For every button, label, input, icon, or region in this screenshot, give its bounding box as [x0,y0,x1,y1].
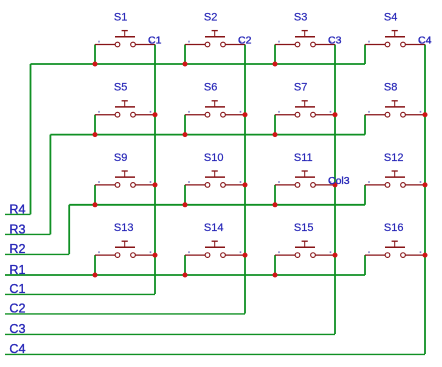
svg-text:S12: S12 [384,152,404,164]
svg-text:S7: S7 [294,82,307,94]
svg-text:C2: C2 [238,35,252,47]
svg-text:S5: S5 [114,82,127,94]
svg-text:S10: S10 [204,152,224,164]
svg-text:S9: S9 [114,152,127,164]
svg-text:C1: C1 [148,35,162,47]
svg-text:S1: S1 [114,12,127,24]
svg-text:Col3: Col3 [328,175,350,187]
svg-text:S15: S15 [294,222,314,234]
svg-text:C2: C2 [9,302,25,316]
svg-text:R2: R2 [9,242,25,256]
svg-text:S2: S2 [204,12,217,24]
svg-text:S11: S11 [294,152,313,164]
svg-text:S6: S6 [204,82,217,94]
svg-text:C4: C4 [9,342,25,356]
svg-text:R4: R4 [9,202,25,216]
svg-text:C1: C1 [9,282,25,296]
svg-text:S16: S16 [384,222,404,234]
svg-text:C4: C4 [418,35,432,47]
svg-text:C3: C3 [9,322,25,336]
svg-text:S3: S3 [294,12,307,24]
svg-text:S8: S8 [384,82,397,94]
svg-text:S13: S13 [114,222,134,234]
svg-text:R1: R1 [9,263,25,277]
svg-text:S4: S4 [384,12,397,24]
svg-text:C3: C3 [328,35,342,47]
svg-text:R3: R3 [9,222,25,236]
svg-text:S14: S14 [204,222,224,234]
